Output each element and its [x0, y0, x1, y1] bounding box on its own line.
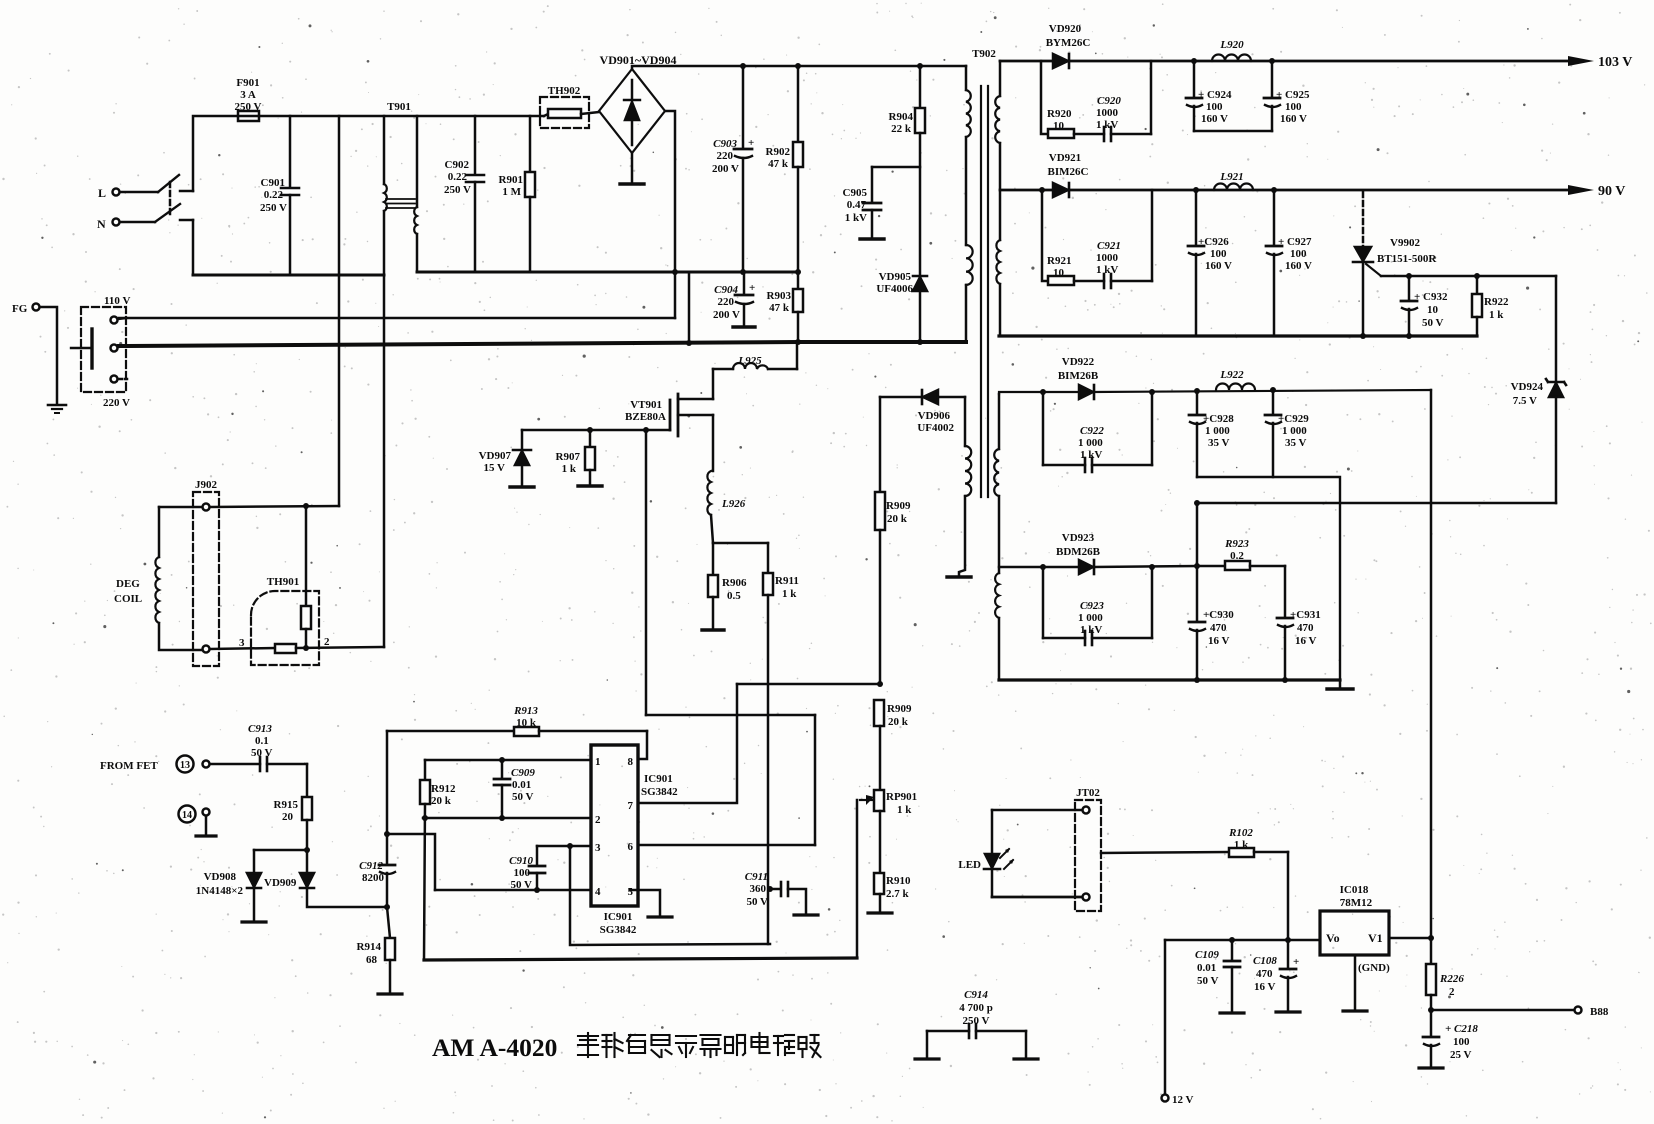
svg-text:1 k: 1 k — [1234, 839, 1249, 851]
svg-text:R909: R909 — [887, 703, 912, 715]
capacitor C905 — [860, 167, 920, 239]
svg-text:BYM26C: BYM26C — [1046, 37, 1091, 49]
svg-text:0.22: 0.22 — [264, 189, 284, 201]
svg-text:VD923: VD923 — [1062, 532, 1095, 544]
svg-text:R911: R911 — [775, 575, 799, 587]
wire VCC horizontal y684 — [737, 683, 880, 686]
svg-text:3: 3 — [595, 842, 601, 854]
svg-text:14: 14 — [182, 810, 192, 821]
connector 110V/220V selector dashed box — [81, 307, 126, 392]
diode VD920 — [1053, 54, 1069, 68]
svg-text:RP901: RP901 — [886, 791, 917, 803]
svg-text:0.47: 0.47 — [847, 199, 867, 211]
node junction dots 90V — [1039, 187, 1277, 193]
diode VD908 — [242, 850, 266, 922]
inductor L920 — [1212, 55, 1251, 61]
svg-text:+ C925: + C925 — [1276, 89, 1310, 101]
resistor TH901 vertical element — [301, 606, 311, 648]
svg-text:4 700 p: 4 700 p — [959, 1002, 993, 1014]
svg-text:C903: C903 — [713, 138, 737, 150]
switch blade N — [155, 204, 180, 222]
resistor R923 — [1197, 561, 1285, 570]
thermistor TH901 dashed box — [251, 591, 319, 665]
svg-text:VD920: VD920 — [1049, 23, 1082, 35]
wire 7.5V branch right vertical — [1555, 276, 1558, 381]
node junction dots C909 — [422, 757, 505, 821]
connector JT02 dashed box — [1075, 800, 1101, 911]
ground below bridge — [620, 153, 644, 184]
resistor R907 — [578, 430, 602, 486]
wire L fixed contact — [180, 190, 193, 193]
svg-text:16 V: 16 V — [1295, 635, 1317, 647]
node 103V arrow — [1568, 56, 1594, 66]
svg-text:R102: R102 — [1228, 827, 1253, 839]
svg-text:C923: C923 — [1080, 600, 1104, 612]
diode VD905 — [913, 276, 927, 342]
node junction dot pin3 branch — [567, 843, 573, 849]
svg-text:J902: J902 — [195, 479, 218, 491]
svg-text:7.5 V: 7.5 V — [1513, 395, 1537, 407]
wire degauss feed vertical x339 — [338, 116, 341, 506]
svg-text:2.7 k: 2.7 k — [886, 888, 910, 900]
svg-text:1 000: 1 000 — [1078, 437, 1103, 449]
svg-text:1 kV: 1 kV — [1096, 264, 1118, 276]
svg-text:6: 6 — [628, 841, 634, 853]
label title chinese glyphs — [578, 1033, 821, 1057]
svg-text:R914: R914 — [357, 941, 382, 953]
svg-text:470: 470 — [1297, 622, 1314, 634]
labels regulator section — [432, 787, 1609, 1106]
node B88 terminal — [1575, 1007, 1582, 1014]
wire C928 C929 bottom loop — [1197, 477, 1340, 680]
node terminal 14 — [179, 806, 217, 837]
svg-text:V9902: V9902 — [1390, 237, 1420, 249]
wire bottom rail left — [193, 274, 384, 277]
wire 12V output drop — [1164, 940, 1167, 1094]
transformer T902 auxiliary winding — [947, 397, 971, 577]
svg-text:100: 100 — [1206, 101, 1223, 113]
resistor R909 divider — [874, 700, 884, 790]
svg-text:+ C932: + C932 — [1414, 291, 1448, 303]
capacitor C930 electrolytic — [1189, 566, 1205, 680]
svg-text:3 A: 3 A — [240, 89, 256, 101]
transformer T902 core — [981, 86, 988, 497]
svg-text:200 V: 200 V — [712, 163, 739, 175]
svg-text:R907: R907 — [556, 451, 581, 463]
svg-text:+C929: +C929 — [1278, 413, 1309, 425]
inductor L925 — [713, 342, 797, 399]
wire R913 to pin8 — [638, 731, 647, 759]
potentiometer RP901 — [860, 790, 884, 873]
wire gate drive to pin6 — [814, 715, 817, 845]
svg-text:R909: R909 — [886, 500, 911, 512]
resistor R901 — [525, 116, 535, 272]
wire VD922 rail y392 — [999, 390, 1431, 394]
svg-text:N: N — [97, 217, 106, 231]
svg-text:0.5: 0.5 — [727, 590, 741, 602]
svg-text:160 V: 160 V — [1201, 113, 1228, 125]
svg-text:100: 100 — [1285, 101, 1302, 113]
node junction dots VD922 row — [1040, 387, 1276, 395]
svg-text:C901: C901 — [261, 177, 285, 189]
wire gate drive horizontal y715 — [646, 714, 815, 717]
wire pin5 ground lead — [630, 890, 672, 917]
labels divider — [886, 703, 917, 900]
capacitor C901 — [281, 116, 299, 275]
svg-text:VD901~VD904: VD901~VD904 — [600, 53, 677, 67]
svg-text:250 V: 250 V — [235, 101, 262, 113]
svg-text:78M12: 78M12 — [1340, 897, 1373, 909]
svg-text:1 k: 1 k — [782, 588, 797, 600]
svg-text:COIL: COIL — [114, 593, 142, 605]
svg-text:0.2: 0.2 — [1230, 550, 1244, 562]
ground secondary — [1327, 680, 1353, 689]
node junction dot TH901 bottom — [303, 645, 309, 651]
svg-text:+: + — [748, 137, 754, 149]
svg-text:1 000: 1 000 — [1205, 425, 1230, 437]
svg-text:C905: C905 — [843, 187, 868, 199]
svg-text:IC901: IC901 — [604, 911, 633, 923]
node JT02 pin bottom — [1083, 894, 1090, 901]
wire secondary ground rail y680 — [999, 678, 1340, 681]
wire source node to R911 — [713, 542, 768, 545]
svg-text:68: 68 — [366, 954, 378, 966]
svg-text:12 V: 12 V — [1172, 1094, 1194, 1106]
wire VCC rectifier rail y397 — [880, 396, 922, 399]
wire 110V tap rail — [119, 317, 675, 320]
node selector 220V pin — [111, 376, 128, 383]
ground FG earth — [48, 405, 66, 413]
svg-text:FG: FG — [12, 303, 28, 315]
svg-text:220 V: 220 V — [103, 397, 130, 409]
wire pin3 sense branch — [570, 846, 770, 945]
svg-text:20 k: 20 k — [431, 795, 452, 807]
capacitor C903 electrolytic — [734, 66, 752, 272]
diode VD907 zener — [510, 430, 534, 487]
svg-text:100: 100 — [514, 867, 531, 879]
svg-text:50 V: 50 V — [747, 896, 769, 908]
svg-text:BT151-500R: BT151-500R — [1377, 253, 1437, 265]
wire pin6 — [638, 844, 815, 847]
inductor L926 — [707, 415, 713, 543]
svg-text:+C928: +C928 — [1203, 413, 1234, 425]
svg-text:F901: F901 — [236, 77, 259, 89]
diode VD909 — [300, 873, 387, 907]
svg-text:VD905: VD905 — [879, 271, 912, 283]
resistor R902 — [793, 66, 803, 272]
svg-text:2: 2 — [324, 636, 330, 648]
svg-text:R904: R904 — [889, 111, 914, 123]
svg-text:0.1: 0.1 — [255, 735, 269, 747]
node junction dot gate — [587, 427, 593, 433]
svg-text:BZE80A: BZE80A — [625, 411, 666, 423]
wire J902 pin1 to degauss feed — [210, 506, 339, 507]
labels secondary — [1046, 23, 1633, 647]
svg-text:C922: C922 — [1080, 425, 1104, 437]
diode VD924 zener — [1546, 379, 1566, 503]
node junction dots primary rails — [672, 63, 923, 346]
capacitor C928 electrolytic — [1189, 391, 1205, 477]
node J902 pin1 — [203, 504, 210, 511]
wire N down to bottom rail — [192, 220, 195, 275]
svg-text:50 V: 50 V — [511, 879, 533, 891]
node junction dot R915 — [304, 847, 310, 853]
wire RP901 wiper riser — [856, 800, 859, 958]
svg-text:L920: L920 — [1219, 39, 1244, 51]
capacitor C921 — [1104, 190, 1152, 288]
svg-text:+C931: +C931 — [1290, 609, 1321, 621]
svg-text:1 000: 1 000 — [1282, 425, 1307, 437]
wire JT02 to R102 — [1101, 852, 1229, 853]
svg-text:2: 2 — [1449, 986, 1455, 998]
node J902 pin2 — [203, 646, 210, 653]
svg-text:T901: T901 — [387, 101, 411, 113]
wire pin4 — [435, 889, 591, 892]
diode VD921 — [1053, 183, 1069, 197]
node 12V terminal — [1162, 1095, 1169, 1102]
resistor TH901 series PTC — [210, 644, 384, 653]
capacitor C911 — [767, 882, 818, 915]
wire pin4 to C912 top — [387, 834, 435, 890]
svg-text:1: 1 — [595, 756, 601, 768]
svg-text:220: 220 — [718, 296, 735, 308]
wire B88 lead — [1431, 1009, 1574, 1012]
label F901 — [12, 53, 676, 649]
wire L lead — [120, 191, 158, 194]
wire pin2 — [423, 817, 591, 820]
svg-text:16 V: 16 V — [1208, 635, 1230, 647]
svg-text:250 V: 250 V — [963, 1015, 990, 1027]
svg-text:R910: R910 — [886, 875, 911, 887]
svg-text:L: L — [98, 186, 106, 200]
svg-text:47 k: 47 k — [768, 158, 789, 170]
svg-text:20 k: 20 k — [887, 513, 908, 525]
node junction dots 103V — [1191, 58, 1275, 64]
node N terminal — [113, 219, 120, 226]
svg-text:R912: R912 — [431, 783, 456, 795]
svg-text:250 V: 250 V — [260, 202, 287, 214]
wire junction x689 between filter bottom and 220V rail — [688, 272, 691, 343]
wire R923 to C931 — [1284, 566, 1287, 616]
wire top rail fuse to TH902 — [259, 115, 544, 118]
svg-text:35 V: 35 V — [1285, 437, 1307, 449]
svg-text:7: 7 — [628, 800, 634, 812]
svg-text:50 V: 50 V — [1197, 975, 1219, 987]
svg-text:L926: L926 — [721, 498, 746, 510]
wire 220V main return rail — [119, 342, 798, 346]
capacitor C920 — [1104, 61, 1151, 141]
svg-text:L921: L921 — [1219, 171, 1243, 183]
transformer T902 secondary upper winding — [995, 61, 1000, 336]
node junction dot B88 — [1428, 1007, 1434, 1013]
transformer T902 secondary lower winding — [994, 394, 999, 680]
wire B+ down x1431 — [1430, 390, 1433, 939]
node L terminal — [113, 189, 120, 196]
svg-text:13: 13 — [180, 760, 190, 771]
inductor L922 — [1216, 384, 1255, 390]
svg-text:C920: C920 — [1097, 95, 1121, 107]
node junction dot V1 — [1428, 935, 1434, 941]
node junction dot gate drive — [643, 427, 649, 433]
resistor R904 — [915, 66, 925, 274]
svg-text:160 V: 160 V — [1205, 260, 1232, 272]
svg-text:(GND): (GND) — [1358, 962, 1390, 974]
node 90V arrow — [1568, 185, 1594, 195]
svg-text:R915: R915 — [274, 799, 299, 811]
capacitor C902 — [466, 116, 484, 272]
svg-text:C904: C904 — [714, 284, 738, 296]
wire V1 input lead — [1389, 937, 1431, 940]
svg-text:10 k: 10 k — [516, 717, 537, 729]
svg-text:R921: R921 — [1047, 255, 1071, 267]
svg-text:BIM26B: BIM26B — [1058, 370, 1099, 382]
svg-text:+ C924: + C924 — [1198, 89, 1232, 101]
svg-text:1 M: 1 M — [502, 186, 521, 198]
svg-text:103 V: 103 V — [1598, 55, 1632, 70]
svg-text:R923: R923 — [1224, 538, 1249, 550]
wire DC+ top rail y66 — [632, 66, 966, 69]
wire gate drive down — [645, 430, 648, 715]
svg-text:BIM26C: BIM26C — [1048, 166, 1089, 178]
transformer T901 — [384, 116, 417, 647]
svg-text:5: 5 — [628, 886, 634, 898]
svg-text:1000: 1000 — [1096, 107, 1119, 119]
svg-text:1000: 1000 — [1096, 252, 1119, 264]
svg-text:C914: C914 — [964, 989, 988, 1001]
svg-text:22 k: 22 k — [891, 123, 912, 135]
svg-text:SG3842: SG3842 — [600, 924, 637, 936]
transformer T902 primary winding — [966, 66, 973, 342]
svg-text:360: 360 — [750, 883, 767, 895]
wire feedback bottom y960 — [424, 958, 857, 960]
svg-text:50 V: 50 V — [512, 791, 534, 803]
wire return rail to T902 primary — [798, 340, 966, 344]
svg-text:220: 220 — [717, 150, 734, 162]
svg-text:VT901: VT901 — [630, 399, 662, 411]
node junction dot R914 top — [384, 904, 390, 910]
capacitor C922 snubber loop — [1043, 392, 1152, 472]
resistor R909 startup — [875, 397, 885, 684]
wire LED to JT02 bottom — [992, 896, 1082, 899]
svg-text:C911: C911 — [745, 871, 768, 883]
wire filter bottom rail — [417, 271, 798, 274]
svg-text:+C926: +C926 — [1198, 236, 1229, 248]
wire crowbar gate rail y276 — [1381, 275, 1556, 278]
capacitor C109 — [1220, 937, 1244, 1013]
svg-text:R920: R920 — [1047, 108, 1072, 120]
node junction dot C910 pin4 — [534, 887, 540, 893]
transistor VT901 MOSFET — [522, 394, 713, 436]
svg-text:Vo: Vo — [1326, 931, 1340, 945]
wire clamp branch y850 — [254, 849, 307, 852]
svg-text:BDM26B: BDM26B — [1056, 546, 1101, 558]
svg-text:15 V: 15 V — [484, 462, 506, 474]
capacitor C910 — [529, 846, 545, 890]
svg-text:50 V: 50 V — [1422, 317, 1444, 329]
svg-text:+ C927: + C927 — [1278, 236, 1312, 248]
svg-text:+C930: +C930 — [1203, 609, 1234, 621]
resistor R921 snubber — [1042, 190, 1104, 285]
svg-text:1 kV: 1 kV — [1080, 449, 1102, 461]
wire regulator output rail y940 — [1165, 939, 1320, 941]
wire TH901 branch vertical — [305, 506, 308, 606]
svg-text:10: 10 — [1427, 304, 1439, 316]
node junction dot C912 — [384, 831, 390, 837]
wire pin3 — [537, 845, 591, 848]
wire left vertical to fuse row — [193, 116, 238, 191]
svg-text:3: 3 — [239, 637, 245, 649]
svg-text:R913: R913 — [513, 705, 538, 717]
resistor R903 — [793, 272, 803, 342]
node junction dots VD923 row — [1040, 500, 1288, 683]
svg-text:R901: R901 — [499, 174, 523, 186]
wire LED to JT02 top — [992, 809, 1082, 812]
resistor R922 — [1472, 276, 1482, 336]
resistor R914 — [378, 907, 402, 994]
svg-text:T902: T902 — [972, 48, 996, 60]
capacitor C913 — [210, 757, 307, 771]
svg-text:20: 20 — [282, 811, 294, 823]
node JT02 pin top — [1083, 807, 1090, 814]
resistor R906 — [702, 543, 724, 630]
svg-text:160 V: 160 V — [1285, 260, 1312, 272]
svg-text:16 V: 16 V — [1254, 981, 1276, 993]
svg-text:VD909: VD909 — [264, 877, 297, 889]
svg-text:C109: C109 — [1195, 949, 1219, 961]
svg-text:C910: C910 — [509, 855, 533, 867]
svg-text:VD908: VD908 — [204, 871, 237, 883]
capacitor C904 electrolytic — [733, 272, 755, 327]
capacitor C909 — [494, 760, 510, 818]
svg-text:+: + — [1293, 956, 1299, 968]
svg-text:4: 4 — [595, 886, 601, 898]
svg-text:+ C218: + C218 — [1445, 1023, 1478, 1035]
capacitor C914 — [915, 1024, 1038, 1059]
node junction dot TH901 top — [303, 503, 309, 509]
ic IC901 box — [591, 745, 638, 906]
capacitor C912 — [379, 731, 395, 907]
svg-text:C909: C909 — [511, 767, 535, 779]
wire 90V feed — [1000, 189, 1568, 192]
svg-text:1N4148×2: 1N4148×2 — [196, 885, 244, 897]
svg-text:50 V: 50 V — [251, 747, 273, 759]
resistor R913 — [387, 727, 647, 736]
selector plug bar — [71, 329, 92, 368]
resistor R920 snubber — [1041, 61, 1104, 138]
svg-text:470: 470 — [1210, 622, 1227, 634]
svg-text:AM A-4020: AM A-4020 — [432, 1033, 557, 1062]
node FROM FET terminal 13 — [177, 756, 210, 773]
wire 103V rail — [1000, 60, 1568, 63]
svg-text:1 000: 1 000 — [1078, 612, 1103, 624]
svg-text:L925: L925 — [737, 355, 762, 367]
led LED — [984, 810, 1014, 897]
diode VD906 — [922, 390, 965, 404]
svg-text:IC018: IC018 — [1340, 884, 1369, 896]
svg-text:DEG: DEG — [116, 578, 140, 590]
svg-text:100: 100 — [1453, 1036, 1470, 1048]
diode VD922 — [1079, 385, 1094, 399]
svg-text:V1: V1 — [1368, 931, 1383, 945]
degauss coil DEG COIL — [155, 507, 202, 650]
ic IC018 78M12 box — [1320, 911, 1389, 955]
thyristor V9902 — [1353, 192, 1381, 336]
resistor R912 — [420, 760, 430, 960]
capacitor C931 electrolytic — [1277, 618, 1293, 680]
svg-text:20 k: 20 k — [888, 716, 909, 728]
svg-text:2: 2 — [595, 814, 601, 826]
node selector COM pin — [111, 345, 127, 352]
